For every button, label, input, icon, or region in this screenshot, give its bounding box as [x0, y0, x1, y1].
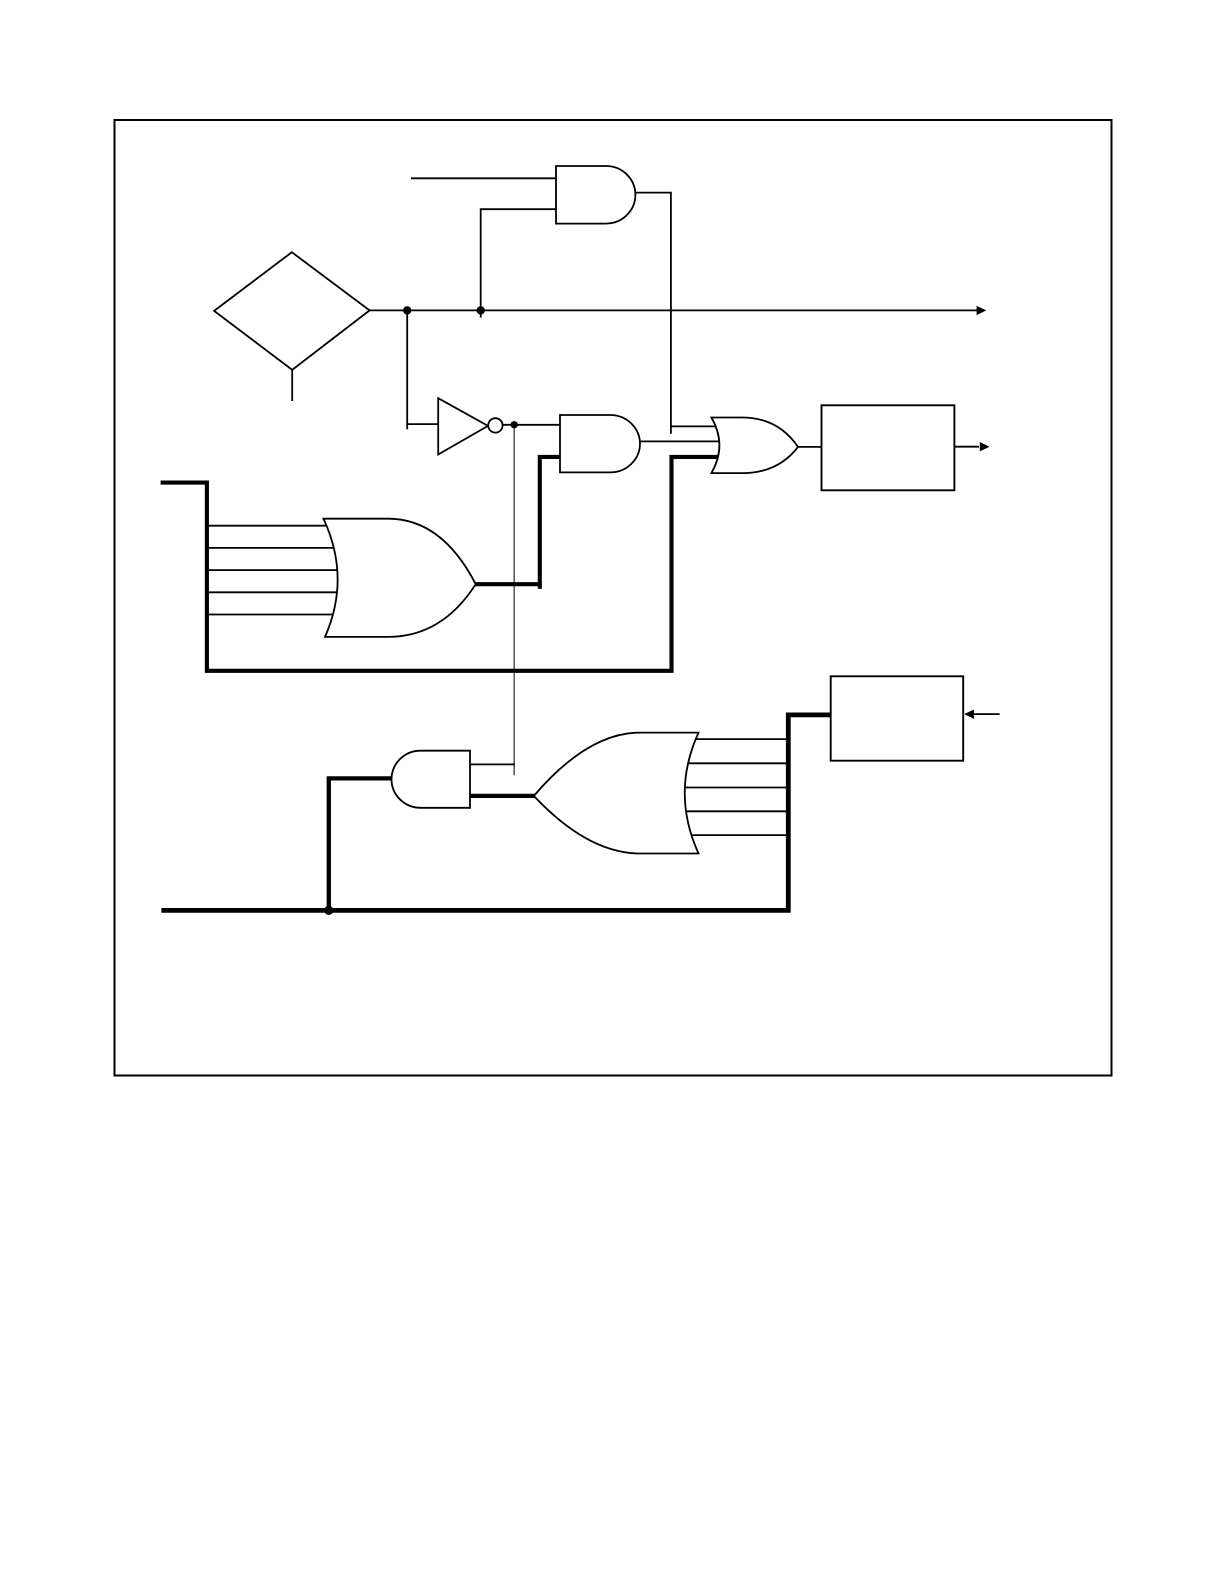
wire: input to AND gate A1 pin 2 (from node N1) [481, 209, 556, 317]
wire: OR O2 input lines (5) from bus [207, 526, 345, 615]
OR gate O3 (mirrored, 5-input) [534, 733, 699, 854]
wire: inverter U2 output to AND gate A2 pin 1 [503, 424, 560, 426]
wire: inverter U2 input horizontal [407, 423, 438, 425]
wire (thick): OR O2 output up into AND A2 pin 2 [472, 457, 560, 584]
arrowhead into box B2 [964, 710, 974, 719]
wire: box B1 output arrow [954, 446, 979, 448]
arrowhead of box B1 output [980, 442, 990, 451]
box B1 [822, 405, 955, 490]
wire: long vertical from inverter output node down to AND gate A3 [513, 425, 515, 776]
junction node at inverter output [511, 421, 518, 428]
wire (thick): OR O3 output into AND A3 pin 2 [470, 794, 535, 798]
junction node on N1 (left) [403, 306, 411, 314]
wire: node N1 drop to inverter U2 input [406, 310, 408, 429]
AND gate A3 (mirrored) [392, 751, 471, 808]
junction node on N1 (right) [477, 306, 485, 314]
junction node on bottom bus [324, 906, 333, 915]
wire (thick): AND A3 output to bottom bus junction [329, 778, 393, 910]
wire (thick): OR O2 output corner overshoot stub [538, 584, 542, 589]
inverter U2 triangle [438, 398, 488, 454]
OR gate O2 (5-input) [324, 519, 476, 637]
wire: input to AND gate A1 pin 1 [411, 177, 556, 179]
wire: AND A2 output to OR gate O1 middle input [637, 440, 722, 442]
AND gate A1 [556, 166, 635, 224]
wire: AND A1 output down to OR gate O1 top input [633, 193, 671, 434]
comparator diamond [214, 252, 370, 370]
bus (thick): stub, left vertical, bottom run, right vertical into OR O1 bottom input [161, 457, 722, 671]
wire: AND A3 top input from long vertical [470, 763, 515, 765]
bottom bus (thick): left run, right vertical, into box B2 [161, 715, 830, 911]
inverter U2 bubble [488, 418, 502, 432]
node N1: horizontal net from diamond to right arrow [370, 309, 978, 311]
page border frame [115, 120, 1112, 1076]
diamond bottom stem [291, 370, 293, 401]
wire: OR O3 input lines (5) from right bus vertical [680, 739, 788, 835]
wire: OR O1 output to box B1 [798, 446, 822, 448]
arrowhead of node N1 net [977, 306, 987, 315]
box B2 [831, 676, 964, 760]
AND gate A2 [560, 415, 640, 472]
wire: OR gate O1 top input horizontal [671, 425, 722, 427]
wire: box B2 input arrow line [974, 713, 1000, 715]
OR gate O1 [711, 418, 798, 474]
